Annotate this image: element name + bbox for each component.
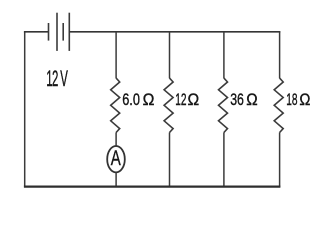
wire: branch 2 upper lead <box>169 32 171 79</box>
svg-text:12: 12 <box>175 89 186 108</box>
svg-text:Ω: Ω <box>246 90 257 109</box>
svg-text:Ω: Ω <box>299 91 310 109</box>
svg-text:12 V: 12 V <box>46 66 68 91</box>
wire: left vertical side <box>24 32 26 187</box>
ammeter A1 circle <box>107 146 125 172</box>
wire: branch 3 lower lead <box>223 133 225 187</box>
svg-text:Ω: Ω <box>143 91 155 110</box>
svg-text:A: A <box>111 145 121 169</box>
svg-text:6.0: 6.0 <box>122 90 140 109</box>
resistor R2 zigzag <box>164 78 173 132</box>
resistor R3 zigzag <box>219 78 228 132</box>
wire: bottom bus <box>24 185 281 187</box>
svg-text:36: 36 <box>230 91 244 109</box>
svg-text:Ω: Ω <box>188 91 200 110</box>
wire: right side lower lead <box>279 133 281 187</box>
wire: branch 1 lower lead <box>115 173 117 187</box>
wire: branch 1 between resistor and ammeter <box>115 133 117 147</box>
wire: top bus from battery to right corner <box>69 31 280 33</box>
wire: branch 1 upper lead <box>115 32 117 79</box>
resistor R4 zigzag <box>274 78 283 132</box>
wire: right side upper lead <box>279 32 281 79</box>
svg-text:18: 18 <box>286 89 297 108</box>
battery B1 (12 V) <box>49 13 70 51</box>
resistor R1 zigzag <box>111 78 120 132</box>
wire: top lead from left corner to battery <box>24 31 49 33</box>
wire: branch 3 upper lead <box>223 32 225 79</box>
wire: branch 2 lower lead <box>169 133 171 187</box>
